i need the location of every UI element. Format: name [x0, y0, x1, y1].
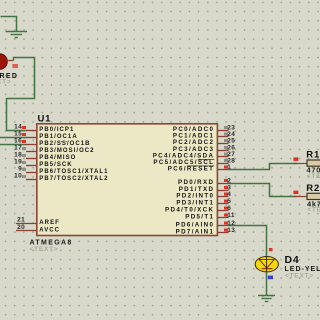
LED D4 LED-YELLOW: [255, 257, 278, 272]
svg-text:PB2/SS/OC1B: PB2/SS/OC1B: [39, 141, 90, 147]
svg-text:AVCC: AVCC: [39, 228, 60, 234]
svg-text:PD2/INT0: PD2/INT0: [176, 193, 214, 200]
pin 17 (PB3/MOSI/OC2) left: [14, 145, 94, 154]
resistor R2: [294, 193, 320, 199]
svg-text:PB3/MOSI/OC2: PB3/MOSI/OC2: [39, 148, 94, 154]
wire to pin 16 (from left edge): [0, 144, 27, 146]
pin 15 (PB1/OC1A) left: [14, 131, 78, 140]
IC U1 ATMEGA8 body: [37, 124, 218, 236]
pin 12 (PD6/AIN0) right: [176, 220, 236, 228]
svg-text:R2: R2: [306, 183, 320, 194]
svg-text:<TEXT>: <TEXT>: [285, 272, 314, 279]
svg-text:PB4/MISO: PB4/MISO: [39, 155, 76, 161]
svg-text:PC6/RESET: PC6/RESET: [168, 166, 215, 173]
svg-text:4: 4: [227, 191, 231, 198]
pin 19 (PB5/SCK) left: [14, 159, 73, 168]
svg-text:20: 20: [17, 224, 25, 231]
label <TEXT> of R1: [307, 173, 320, 180]
pin 13 (PD7/AIN1) right: [176, 227, 236, 235]
pin 16 (PB2/SS/OC1B) left: [14, 138, 90, 147]
svg-text:PD3/INT1: PD3/INT1: [176, 200, 214, 207]
ground (top-left): [6, 32, 27, 38]
LED D? LED-RED: [0, 54, 14, 70]
svg-text:15: 15: [14, 131, 22, 138]
label LED-RED: [0, 73, 18, 80]
svg-text:10: 10: [14, 173, 22, 180]
ground (below D4): [258, 296, 275, 302]
svg-text:D4: D4: [285, 254, 300, 266]
svg-text:AREF: AREF: [39, 220, 60, 226]
svg-text:21: 21: [17, 216, 25, 223]
state marker (red) on R2 pin: [293, 191, 298, 195]
pin 4 (PD2/INT0) right: [176, 191, 231, 199]
pin 11 (PD5/T1) right: [185, 212, 235, 220]
svg-text:9: 9: [18, 166, 22, 173]
svg-text:17: 17: [14, 145, 22, 152]
svg-text:PB5/SCK: PB5/SCK: [39, 162, 72, 168]
label <TEXT> of R2: [307, 207, 320, 214]
pin 3 (PD1/TXD) right: [179, 185, 232, 193]
pin 2 (PD0/RXD) right: [178, 178, 231, 186]
pin 23 (PC0/ADC0) right: [173, 125, 235, 133]
svg-text:PD0/RXD: PD0/RXD: [178, 179, 214, 186]
pin 26 (PC3/ADC3) right: [173, 145, 235, 153]
svg-text:14: 14: [14, 124, 22, 131]
pin 28 (PC5/ADC5/SCL) right: [153, 158, 235, 166]
svg-text:PB1/OC1A: PB1/OC1A: [39, 134, 77, 140]
svg-text:25: 25: [227, 138, 235, 145]
svg-text:18: 18: [14, 152, 22, 159]
svg-text:PD6/AIN0: PD6/AIN0: [176, 222, 215, 229]
svg-text:<TEXT>: <TEXT>: [30, 246, 59, 253]
svg-text:PD5/T1: PD5/T1: [185, 214, 214, 221]
pin 9 (PB6/TOSC1/XTAL1) left: [18, 166, 108, 175]
svg-text:PD4/T0/XCK: PD4/T0/XCK: [165, 207, 214, 214]
svg-text:PD7/AIN1: PD7/AIN1: [176, 229, 215, 236]
pin 18 (PB4/MISO) left: [14, 152, 76, 161]
pin 6 (PD4/T0/XCK) right: [165, 205, 231, 213]
pin 24 (PC1/ADC1) right: [173, 131, 235, 139]
svg-text:U1: U1: [38, 114, 52, 125]
pin 5 (PD3/INT1) right: [176, 198, 231, 206]
svg-text:PB6/TOSC1/XTAL1: PB6/TOSC1/XTAL1: [39, 169, 108, 175]
svg-text:11: 11: [227, 212, 235, 219]
value 4k7 of R2: [307, 199, 320, 208]
label U1: [38, 114, 52, 125]
pin 21 (AREF) left: [16, 216, 60, 226]
label R2: [306, 183, 320, 194]
svg-text:5: 5: [227, 198, 231, 205]
svg-text:PB0/ICP1: PB0/ICP1: [39, 127, 74, 133]
label R1: [306, 150, 320, 161]
wire LED-RED to pin 14: [7, 58, 35, 131]
wire to pin 15 (from left edge): [0, 137, 27, 139]
label <TEXT> of LED-RED: [0, 78, 12, 85]
svg-text:19: 19: [14, 159, 22, 166]
pin 10 (PB7/TOSC2/XTAL2) left: [14, 173, 108, 182]
label <TEXT> of D4: [285, 272, 314, 279]
wire pin 2 to R2: [229, 184, 297, 197]
svg-text:<TEXT>: <TEXT>: [0, 78, 12, 85]
wire pin 12 to D4: [229, 226, 267, 257]
svg-text:13: 13: [227, 227, 235, 234]
state marker (red) on LED-RED pin: [12, 64, 18, 68]
svg-text:<TEXT>: <TEXT>: [307, 173, 320, 180]
pin 20 (AVCC) left: [16, 224, 60, 234]
label <TEXT> of U1: [30, 246, 59, 253]
svg-text:PC2/ADC2: PC2/ADC2: [173, 139, 214, 146]
wire pin 1 to R1: [229, 164, 297, 170]
label D4: [285, 254, 300, 266]
state marker (red) on R1 pin: [293, 157, 298, 161]
pin 25 (PC2/ADC2) right: [173, 138, 235, 146]
svg-text:6: 6: [227, 205, 231, 212]
svg-text:16: 16: [14, 138, 22, 145]
wire D4 to ground: [266, 272, 268, 295]
state marker (red) on D4 anode pin: [269, 248, 273, 251]
state marker (blue) on D4 cathode pin: [268, 276, 273, 280]
wire to ground (top-left): [1, 17, 17, 32]
label LED-YELLOW: [285, 266, 320, 273]
pin 1 (PC6/RESET) right: [168, 164, 232, 172]
label ATMEGA8: [30, 240, 73, 247]
svg-text:PB7/TOSC2/XTAL2: PB7/TOSC2/XTAL2: [39, 176, 108, 182]
pin 14 (PB0/ICP1) left: [14, 124, 74, 133]
svg-text:R1: R1: [306, 150, 320, 161]
resistor R1: [294, 160, 320, 166]
value 470 of R1: [307, 165, 320, 174]
pin 27 (PC4/ADC4/SDA) right: [153, 151, 236, 159]
svg-text:<TEXT>: <TEXT>: [307, 207, 320, 214]
